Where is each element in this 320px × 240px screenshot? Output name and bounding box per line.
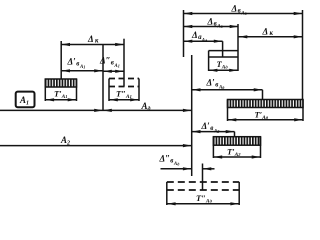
arrowheads Δн Aд — [184, 40, 193, 43]
wire: Aд base line — [0, 109, 192, 111]
dimension Δ'в Aд line — [192, 89, 263, 91]
dimension Δк left: line — [61, 44, 124, 46]
marker: T''Aд center line — [202, 164, 204, 191]
svg-text:Δк: Δк — [87, 34, 99, 44]
T''A1 width dimension line — [109, 99, 139, 101]
svg-text:Т′А1: Т′А1 — [54, 89, 68, 101]
dimension Δк left: extension line at T'A1 center — [60, 41, 62, 79]
marker: T'Aд center — [262, 90, 264, 100]
arrowheads T Aд width — [209, 69, 218, 72]
tolerance field T''A1 dashed box — [109, 78, 139, 80]
zero reference line left block — [102, 45, 104, 111]
svg-text:Т″Ад: Т″Ад — [196, 193, 213, 205]
dimension Δ'в A1 line — [61, 70, 103, 72]
arrowheads T'Aд width — [228, 118, 237, 121]
vertical V2 right block — [191, 55, 193, 176]
node A1 box — [16, 92, 35, 108]
arrowheads base line Aд at zero line — [94, 109, 103, 112]
dimension Δ''в A1 line — [103, 70, 124, 72]
compensator field T Aд small box — [209, 50, 238, 52]
T'A1 right side extension — [76, 79, 78, 101]
tolerance field T'A1 hatched box — [45, 79, 76, 87]
arrowheads ΔВ Aд — [184, 25, 193, 28]
svg-text:Ад: Ад — [141, 101, 151, 113]
vertical R2 small box right side — [237, 24, 239, 71]
svg-text:А1: А1 — [19, 95, 29, 107]
arrowheads T''A1 width — [109, 98, 118, 101]
T'A1 width dimension line — [45, 99, 76, 101]
T Aд center line — [222, 41, 224, 57]
svg-text:Δ″вА1: Δ″вА1 — [99, 56, 120, 69]
T'A1 left side extension — [44, 79, 46, 101]
marker: T'A2 center — [234, 132, 236, 137]
svg-text:ТАд: ТАд — [217, 59, 229, 71]
svg-text:Т′А2: Т′А2 — [227, 147, 241, 159]
arrowheads Δк right — [239, 35, 248, 38]
svg-text:Δ′вАд: Δ′вАд — [206, 77, 225, 90]
svg-text:А2: А2 — [60, 135, 70, 147]
svg-text:ΔвАд: ΔвАд — [231, 3, 247, 16]
svg-text:Т′Ад: Т′Ад — [255, 110, 269, 122]
vertical R1 at right edge — [302, 10, 304, 100]
T'Aд width dimension line — [228, 119, 304, 121]
arrowheads T'A1 width — [45, 98, 54, 101]
dimension Δ''в Aд line left segment — [161, 168, 192, 170]
arrowhead A2 line at V2 — [183, 144, 192, 147]
dimension Δк left: extension line at T''A1 center — [123, 39, 125, 87]
dimension Δк right line — [239, 36, 303, 38]
arrowheads Δв Aд top — [184, 12, 193, 15]
arrowheads Δ'в A2 — [192, 130, 201, 133]
dimension Δн Aд third line — [184, 40, 223, 42]
dimension Δ''в Aд line right segment — [203, 168, 215, 170]
tolerance field T'Aд hatched box — [228, 100, 304, 108]
T Aд width dimension line — [209, 69, 238, 71]
arrowhead base line Aд at V2 — [183, 109, 192, 112]
arrowheads Δ''в Aд — [183, 167, 192, 170]
svg-text:Δ′вА1: Δ′вА1 — [67, 57, 86, 70]
dimension Δв Aд top line — [184, 13, 303, 15]
arrowheads Δк left — [61, 43, 70, 46]
dimension ΔВ Aд second line — [184, 26, 239, 28]
wire: A2 base line — [0, 145, 192, 147]
svg-text:ΔвАд: ΔвАд — [207, 16, 223, 29]
arrowheads T''Aд width — [167, 202, 176, 205]
arrowheads Δ'в Aд — [192, 88, 201, 91]
dimension Δ'в A2 line — [192, 131, 235, 133]
arrowheads Δ'в A1 — [61, 69, 70, 72]
svg-text:Δ″вАд: Δ″вАд — [159, 154, 180, 167]
T'A2 width dimension line — [213, 156, 260, 158]
tolerance field T'A2 hatched box — [213, 137, 260, 146]
T''Aд width dimension line — [167, 203, 239, 205]
tolerance field T''Aд dashed box — [167, 181, 239, 183]
svg-text:Δк: Δк — [262, 27, 274, 37]
arrowheads Δ''в A1 — [103, 70, 112, 73]
arrowheads T'A2 width — [213, 155, 222, 158]
vertical V1 right block — [183, 10, 185, 57]
svg-text:Т″А1: Т″А1 — [116, 89, 132, 101]
